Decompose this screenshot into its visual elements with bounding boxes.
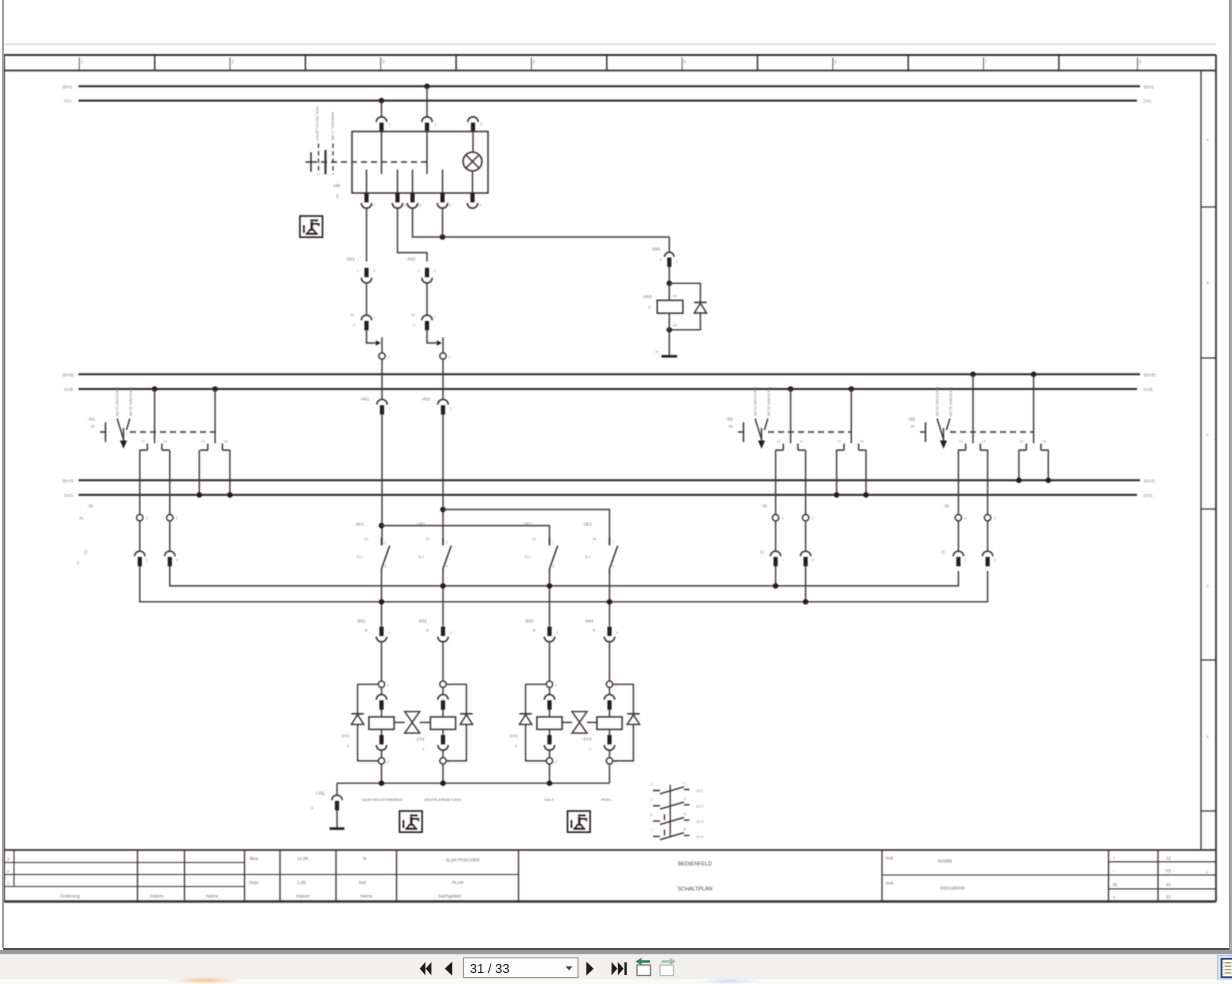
svg-text:3: 3 xyxy=(384,541,386,545)
terminal -X2:1 xyxy=(379,353,385,359)
suppressor diode V1 across K1 xyxy=(694,302,706,313)
S1 pole1 feed xyxy=(154,389,156,443)
S2 mechanical dashed link xyxy=(768,431,851,433)
svg-text:4l: 4l xyxy=(533,629,536,633)
svg-text:v.: v. xyxy=(1113,895,1116,900)
foot pedal pictogram P2 xyxy=(400,811,423,832)
connector -6X4 xyxy=(604,627,614,642)
svg-text:6: 6 xyxy=(419,204,421,208)
svg-text:4: 4 xyxy=(533,59,536,64)
svg-text:2: 2 xyxy=(387,760,389,764)
svg-text:8: 8 xyxy=(684,827,686,831)
wire -6X4 to valve terminal xyxy=(609,642,611,681)
zone band centre ticks xyxy=(79,58,1137,71)
svg-text:(-4Q: (-4Q xyxy=(316,791,325,796)
S3 pole1 feed xyxy=(972,374,974,443)
svg-text:3: 3 xyxy=(964,558,966,562)
svg-text:1: 1 xyxy=(81,59,84,64)
svg-text:SCHALTPLAN: SCHALTPLAN xyxy=(678,887,713,893)
svg-text:4x: 4x xyxy=(411,313,415,317)
valve actuator symbol between coils at x=579.5 xyxy=(572,712,587,734)
connector -4X1 xyxy=(377,399,387,414)
S3 pole 1 bridge contact xyxy=(958,439,988,450)
wire -1Y3 to return wire xyxy=(549,764,551,783)
svg-text:2: 2 xyxy=(373,204,375,208)
svg-text:C: C xyxy=(1206,432,1209,437)
svg-text:4x: 4x xyxy=(79,516,84,521)
svg-text:14: 14 xyxy=(163,439,167,443)
contact K1.4 to valve column 4 xyxy=(609,575,611,626)
push button S3 operator xyxy=(908,417,950,449)
junction Y2 on return wire xyxy=(440,780,446,786)
valve -1Y1 terminal 2 xyxy=(378,758,384,764)
S2 pole2 left drop to 0VS xyxy=(836,450,838,495)
junction on 30VL bus feeding Q1 xyxy=(424,84,430,90)
svg-text:30VL: 30VL xyxy=(62,84,74,90)
svg-text:-2X1: -2X1 xyxy=(346,257,356,262)
svg-text:1: 1 xyxy=(146,517,148,521)
connector -5X1:1 xyxy=(135,551,145,566)
S1 pole2 right drop to 0VS bus xyxy=(229,450,231,495)
wire S2 left onto upper control wire xyxy=(775,566,777,586)
svg-text:3L1: 3L1 xyxy=(418,555,424,559)
solenoid valve coil -1Y3 xyxy=(537,717,562,730)
arrow into node (left) xyxy=(376,340,381,345)
svg-text:-6X3: -6X3 xyxy=(525,619,535,624)
svg-text:-S2: -S2 xyxy=(726,417,734,423)
connector -5X3:2 xyxy=(982,551,992,566)
S3 pole2 right drop to 30VS xyxy=(1047,450,1049,480)
svg-text:30VL: 30VL xyxy=(1144,84,1156,90)
svg-text:-3X0: -3X0 xyxy=(651,247,661,252)
S1 pole2 left drop to 0VS bus xyxy=(198,450,200,495)
valve plug -1Y2 upper xyxy=(438,695,448,710)
relay contact K1.4 (NO) xyxy=(583,522,618,576)
wire -6X2 to valve terminal xyxy=(442,642,444,681)
svg-text:BETR.WAEHLEN: BETR.WAEHLEN xyxy=(767,387,771,416)
svg-text:1: 1 xyxy=(389,123,391,127)
stub to coil -1Y3 xyxy=(549,709,551,717)
svg-text:2: 2 xyxy=(176,558,178,562)
frame left border xyxy=(3,55,5,902)
S1 pole 1 bridge contact xyxy=(140,439,170,450)
junction Y1 on return wire xyxy=(379,780,385,786)
svg-text:ZENTR.EINSETZEN: ZENTR.EINSETZEN xyxy=(424,797,461,802)
selector switch S1 operator xyxy=(88,417,130,449)
connector X1 pin 2 (bottom of main switch) xyxy=(361,193,371,208)
stub to coil -1Y4 xyxy=(609,709,611,717)
stub to lower terminal of -1Y1 xyxy=(381,750,383,758)
valve -1Y2 terminal 1 xyxy=(440,681,446,687)
svg-text:1: 1 xyxy=(373,315,375,319)
svg-text:Datum: Datum xyxy=(150,894,164,899)
svg-text:12: 12 xyxy=(1166,855,1171,860)
aux contact row 1 xyxy=(651,782,704,794)
solenoid valve coil -1Y4 xyxy=(597,717,622,730)
svg-text:2: 2 xyxy=(336,194,339,199)
svg-text:2: 2 xyxy=(684,782,686,786)
junction node to cross wire B xyxy=(440,507,446,513)
svg-text:0VL: 0VL xyxy=(1144,99,1153,105)
svg-text:-4X1: -4X1 xyxy=(360,397,370,402)
svg-text:2: 2 xyxy=(176,517,178,521)
svg-text:4D: 4D xyxy=(911,425,916,429)
contact K1.1 to valve column 1 xyxy=(381,575,383,626)
toolbar controls svg xyxy=(0,948,1232,984)
previous view icon xyxy=(636,958,651,976)
svg-text:Datum: Datum xyxy=(296,894,310,899)
junction 30VB bus to S3 pole1 xyxy=(970,372,976,378)
svg-text:Gepr.: Gepr. xyxy=(249,880,260,885)
last page button xyxy=(612,962,627,975)
relay coil A2 lead to ground xyxy=(668,313,670,355)
svg-text:4: 4 xyxy=(446,565,448,569)
wire -X2:1 down across buses xyxy=(381,359,383,399)
valve return wire xyxy=(337,782,610,784)
right margin row dividers xyxy=(1201,207,1216,811)
svg-text:1: 1 xyxy=(651,783,653,787)
svg-text:2: 2 xyxy=(812,558,814,562)
svg-text:1: 1 xyxy=(418,269,420,273)
junction 0VB bus to S2 pole2 xyxy=(849,386,855,392)
junction Q1:8 onto relay feed wire xyxy=(440,234,446,240)
valve actuator stubs xyxy=(561,721,597,723)
svg-text:4: 4 xyxy=(994,558,996,562)
diode V3 across Y2 branch wiring xyxy=(446,684,466,761)
svg-text:beil: beil xyxy=(359,880,366,885)
lamp H1 top lead xyxy=(472,132,474,153)
stub into plug of -1Y4 xyxy=(609,687,611,694)
svg-text:3: 3 xyxy=(7,857,10,862)
first page button xyxy=(420,962,432,975)
Q1 internal contact drops xyxy=(367,132,443,194)
svg-text:-2X2: -2X2 xyxy=(406,257,416,262)
svg-text:8: 8 xyxy=(449,204,451,208)
connector X1 pin 3 (top of main switch) xyxy=(422,117,432,132)
connector -6X1 xyxy=(376,627,386,642)
svg-text:M: M xyxy=(656,350,659,354)
node stub line right xyxy=(442,337,444,353)
wire X5:1 to connector xyxy=(957,521,959,551)
svg-text:a: a xyxy=(515,744,518,748)
terminal -X5:1 xyxy=(955,515,961,521)
stub into plug of -1Y1 xyxy=(381,687,383,694)
svg-text:4L: 4L xyxy=(593,537,597,541)
connector X1 pin 0 (bottom of main switch) xyxy=(467,193,477,208)
svg-text:Invk.: Invk. xyxy=(886,856,895,861)
sidebar document icon highlight xyxy=(1218,956,1232,980)
svg-text:(C: (C xyxy=(760,550,764,555)
junction S3 onto 30VS bus (2) xyxy=(1046,478,1052,484)
svg-text:2: 2 xyxy=(449,355,451,359)
terminal -X5:2 xyxy=(984,515,990,521)
S2 pole2 right drop to 0VS xyxy=(865,450,867,495)
svg-text:a: a xyxy=(347,744,350,748)
svg-text:4x: 4x xyxy=(351,313,355,317)
S3 pole1 left drop xyxy=(957,450,959,514)
stub to lower terminal of -1Y2 xyxy=(442,750,444,758)
title block horizontal sub-lines xyxy=(4,862,1216,889)
bus 0VB xyxy=(79,388,1138,390)
svg-text:a: a xyxy=(413,323,416,327)
S2 pole 1 bridge contact xyxy=(776,439,806,450)
connector -6X3 xyxy=(544,627,554,642)
wire X3:2 to connector xyxy=(169,521,171,551)
wire X4:1 to connector xyxy=(775,521,777,551)
svg-text:7: 7 xyxy=(985,59,988,64)
svg-text:2: 2 xyxy=(7,869,10,874)
contact K1.3 to valve column 3 xyxy=(549,575,551,626)
svg-text:4L: 4L xyxy=(533,537,537,541)
connector -5X3:1 xyxy=(953,551,963,566)
svg-text:24: 24 xyxy=(860,439,864,443)
valve actuator symbol between coils at x=412.2 xyxy=(405,712,420,734)
svg-text:31: 31 xyxy=(1166,882,1171,887)
arrow into node (right) xyxy=(437,340,442,345)
aux contact row 4 xyxy=(651,827,704,839)
svg-text:BETR.WAEHLEN: BETR.WAEHLEN xyxy=(129,387,133,416)
svg-text:30VS: 30VS xyxy=(1144,478,1156,484)
taskbar orange glow xyxy=(170,977,240,984)
svg-text:4: 4 xyxy=(404,204,406,208)
svg-text:5: 5 xyxy=(480,123,482,127)
svg-text:B0298: B0298 xyxy=(938,859,952,865)
svg-text:0VS: 0VS xyxy=(1144,493,1153,499)
svg-text:PLAN: PLAN xyxy=(452,880,463,885)
main switch Q1 enclosure box xyxy=(352,132,488,194)
terminal -X4:2 xyxy=(802,515,808,521)
svg-text:4l: 4l xyxy=(365,629,368,633)
svg-text:BEDIENFELD: BEDIENFELD xyxy=(678,862,712,868)
svg-text:-6X2: -6X2 xyxy=(418,619,428,624)
stub below coil -1Y3 xyxy=(549,729,551,735)
svg-text:24: 24 xyxy=(1042,439,1046,443)
wire 0VL bus to connector X1:1 xyxy=(381,101,383,117)
stub into plug of -1Y2 xyxy=(442,687,444,694)
wire X4:2 to connector xyxy=(805,521,807,551)
svg-text:4D: 4D xyxy=(91,425,96,429)
svg-text:-1K0: -1K0 xyxy=(642,294,652,299)
valve -1Y3 terminal 2 xyxy=(546,758,552,764)
stub to coil -1Y2 xyxy=(442,709,444,717)
svg-text:13: 13 xyxy=(141,439,145,443)
stub into plug of -1Y3 xyxy=(549,687,551,694)
connector X1 pin 4 (bottom of main switch) xyxy=(392,193,402,208)
svg-text:2: 2 xyxy=(612,565,614,569)
relay coil A1 lead xyxy=(668,283,670,300)
svg-text:1: 1 xyxy=(782,558,784,562)
wire -4X2 down to contact K1.2 xyxy=(442,415,444,546)
svg-text:8: 8 xyxy=(1139,59,1142,64)
page bottom border xyxy=(3,948,1229,950)
junction K1.3 onto upper control wire xyxy=(547,583,553,589)
valve actuator stubs xyxy=(394,721,430,723)
mechanical coupling dashed line of Q1 xyxy=(311,161,427,163)
svg-text:1: 1 xyxy=(389,407,391,411)
toolbar background xyxy=(0,954,1232,984)
svg-text:+: + xyxy=(1113,855,1116,860)
svg-text:F5: F5 xyxy=(1166,869,1172,874)
previous page button xyxy=(445,962,452,976)
svg-text:BETR.WAEHLEN: BETR.WAEHLEN xyxy=(949,387,953,416)
S1 mechanical dashed link xyxy=(130,431,215,433)
wire -7X0 to ground xyxy=(336,810,338,828)
relay contact K1.2 (NO) xyxy=(416,522,451,576)
junction S1 onto 0VS bus xyxy=(197,492,203,498)
bus 30VS xyxy=(79,479,1141,481)
diode V2 across Y1 branch wiring xyxy=(358,684,379,761)
stub to coil -1Y1 xyxy=(381,709,383,717)
svg-text:3: 3 xyxy=(556,631,558,635)
stub below coil -1Y4 xyxy=(609,729,611,735)
wire -4X1 down to contact K1.1 xyxy=(381,415,383,546)
connector -3X0 (relay feed) xyxy=(665,252,674,267)
svg-text:(C: (C xyxy=(941,550,945,555)
svg-text:4L: 4L xyxy=(365,537,369,541)
svg-text:1: 1 xyxy=(612,541,614,545)
svg-text:1: 1 xyxy=(146,558,148,562)
S3 pole1 right drop xyxy=(987,450,989,514)
svg-text:33: 33 xyxy=(1166,895,1171,900)
svg-text:-S3: -S3 xyxy=(908,417,916,423)
viewer left window edge xyxy=(2,0,4,948)
svg-text:7: 7 xyxy=(651,828,653,832)
frame outer right border xyxy=(1215,55,1217,902)
wire X3:1 to connector xyxy=(139,521,141,551)
svg-text:BETR.DRUCKEN: BETR.DRUCKEN xyxy=(936,387,940,416)
drawing frame zone band bottom line xyxy=(4,70,1216,72)
node relay coil top xyxy=(667,281,673,287)
svg-text:B: B xyxy=(1206,280,1209,285)
valve plug -1Y2 lower xyxy=(438,735,448,750)
wire -1Y4 to return wire xyxy=(609,764,611,783)
Q1 operator solid bar xyxy=(324,150,326,174)
S3 mechanical dashed link xyxy=(950,431,1034,433)
svg-text:-S1: -S1 xyxy=(88,417,96,423)
junction S3 onto 30VS bus xyxy=(1016,478,1022,484)
contact K1.2 to valve column 2 xyxy=(442,575,444,626)
junction 0VB bus to S2 pole1 xyxy=(788,386,794,392)
svg-text:-1M: -1M xyxy=(332,183,340,188)
svg-text:3L1: 3L1 xyxy=(357,555,363,559)
svg-text:1: 1 xyxy=(555,683,557,687)
svg-text:6: 6 xyxy=(834,59,837,64)
svg-text:0B: 0B xyxy=(88,504,93,509)
plug -2X2 lower half xyxy=(422,315,432,330)
svg-text:4: 4 xyxy=(994,517,996,521)
bus 0VS xyxy=(79,494,1138,496)
svg-text:-1Y4: -1Y4 xyxy=(582,737,592,742)
svg-text:1: 1 xyxy=(357,269,359,273)
svg-text:Sachgebiet: Sachgebiet xyxy=(438,894,462,899)
terminal -X2:2 xyxy=(440,353,446,359)
branch wire to diode V1 xyxy=(669,283,700,302)
svg-text:(C: (C xyxy=(84,550,88,555)
viewer right gray strip xyxy=(1229,0,1232,953)
svg-text:a: a xyxy=(353,323,356,327)
connector -5X2:1 xyxy=(770,551,780,566)
svg-text:KALT: KALT xyxy=(545,797,555,802)
svg-text:1: 1 xyxy=(782,517,784,521)
svg-text:2: 2 xyxy=(232,59,235,64)
valve plug -1Y1 upper xyxy=(376,695,386,710)
svg-text:3L1: 3L1 xyxy=(525,555,531,559)
S1 pole1 left drop to terminal xyxy=(139,450,141,514)
terminal -X3:2 xyxy=(167,515,173,521)
wire through -2X1 xyxy=(366,283,368,315)
svg-text:BETR.DRUCKEN: BETR.DRUCKEN xyxy=(754,387,758,416)
svg-text:NETZ.TRENNER: NETZ.TRENNER xyxy=(331,111,335,140)
S1 pole2 feed xyxy=(214,389,216,443)
svg-text:5: 5 xyxy=(684,59,687,64)
wire -1Y2 to return wire xyxy=(442,764,444,783)
connector X1 pin 8 (bottom of main switch) xyxy=(437,193,447,208)
valve plug -1Y3 lower xyxy=(544,735,554,750)
page number box xyxy=(464,958,579,978)
svg-text:0B: 0B xyxy=(762,504,767,509)
stub to lower terminal of -1Y3 xyxy=(549,750,551,758)
wire Q1:6 to relay K1 branch xyxy=(413,208,670,237)
S2 pole 2 bridge contact xyxy=(836,439,866,450)
svg-text:PFEIL: PFEIL xyxy=(601,797,613,802)
svg-text:A2: A2 xyxy=(673,324,677,328)
long control wire upper (to S3) xyxy=(170,566,959,586)
drawing frame zone band top line xyxy=(4,54,1216,56)
svg-text:4l: 4l xyxy=(593,629,596,633)
frame inner right margin line xyxy=(1200,71,1202,851)
svg-text:0VS: 0VS xyxy=(64,493,73,499)
svg-text:1.08: 1.08 xyxy=(297,880,306,885)
svg-text:N: N xyxy=(363,856,366,861)
svg-text:4D: 4D xyxy=(729,425,734,429)
valve plug -1Y1 lower xyxy=(376,735,386,750)
svg-text:13: 13 xyxy=(777,439,781,443)
diode V1 bottom lead xyxy=(669,313,700,330)
svg-text:1: 1 xyxy=(552,541,554,545)
svg-text:2: 2 xyxy=(434,269,436,273)
svg-text:0VL: 0VL xyxy=(64,99,73,105)
diode V2 across Y1 xyxy=(351,714,363,725)
lamp H1 (illuminated indicator in main switch) xyxy=(463,152,482,171)
svg-text:1: 1 xyxy=(676,260,678,264)
diode V4 across Y3 xyxy=(519,714,531,725)
node stub line left xyxy=(381,337,383,353)
svg-text:23: 23 xyxy=(1020,439,1024,443)
S2 pole2 feed xyxy=(850,389,852,443)
diode V3 across Y2 xyxy=(460,714,472,725)
bus 30VL top xyxy=(79,85,1141,87)
wire S2 right onto lower control wire xyxy=(805,566,807,602)
svg-text:10.4: 10.4 xyxy=(696,835,703,839)
wire Q1:8 down to junction xyxy=(442,208,444,237)
svg-text:24: 24 xyxy=(224,439,228,443)
valve -1Y1 terminal 1 xyxy=(378,681,384,687)
svg-text:23: 23 xyxy=(837,439,841,443)
svg-text:0B: 0B xyxy=(944,504,949,509)
svg-text:ELEKTRISCHER: ELEKTRISCHER xyxy=(446,858,480,863)
toolbar lighter bottom strip xyxy=(0,979,1232,984)
junction 30VB bus to S3 pole2 xyxy=(1031,372,1037,378)
svg-text:34D11BSW: 34D11BSW xyxy=(940,886,965,892)
title block outline xyxy=(4,849,1216,851)
push button S2 operator xyxy=(726,417,768,449)
valve plug -1Y4 lower xyxy=(604,735,614,750)
cross wire A to contact K1.3 xyxy=(382,526,550,546)
lamp H1 bottom lead xyxy=(472,171,474,193)
plug -2X1 upper half xyxy=(361,268,371,283)
terminal -X3:1 xyxy=(137,515,143,521)
svg-text:KEIN REGISTRIEREN: KEIN REGISTRIEREN xyxy=(362,797,403,802)
